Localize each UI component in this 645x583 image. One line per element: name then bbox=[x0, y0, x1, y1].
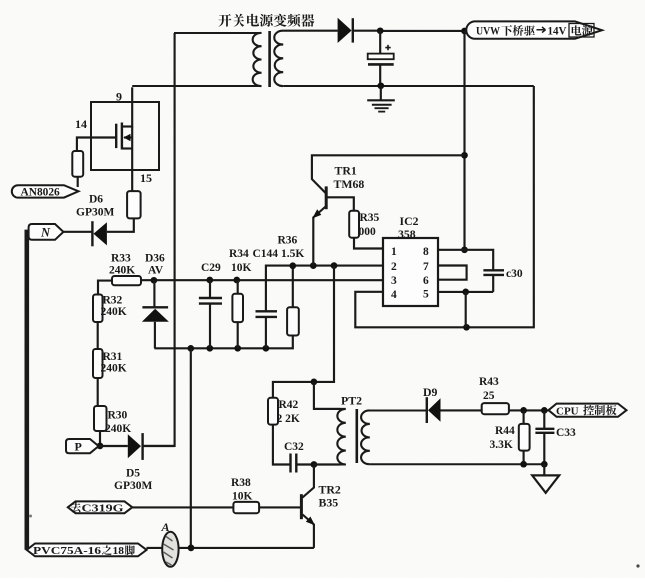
net flag P bbox=[66, 439, 99, 453]
resistor R43 bbox=[482, 403, 509, 414]
wire pin 15 (source) bbox=[131, 149, 133, 192]
wire R35 to IC2 pin 1 bbox=[354, 238, 383, 249]
junction dot R34 top bbox=[233, 277, 240, 284]
wire R33 left lead bbox=[98, 281, 112, 295]
label 开关电源变频器 (switching power transformer title) bbox=[218, 14, 314, 27]
capacitor C144 bbox=[266, 266, 383, 311]
gate series resistor (unlabeled) bbox=[72, 151, 83, 177]
wire P to D5 bbox=[99, 445, 128, 447]
wire pin5 to pin4 loop bbox=[465, 292, 467, 327]
net flag PVC75A-16之18脚 bbox=[27, 544, 147, 557]
wire 去C319G to R38 bbox=[132, 506, 233, 508]
transistor TR1 bbox=[312, 155, 465, 193]
ground symbol (top, after filter cap) bbox=[380, 86, 382, 100]
resistor R44 bbox=[523, 410, 525, 424]
junction dot 14V rail / IC supply bbox=[461, 28, 468, 35]
capacitor c30 bbox=[483, 269, 504, 271]
net flag CPU控制板 bbox=[549, 404, 627, 417]
junction dot rectifier output bbox=[377, 27, 384, 34]
wire R43 to CPU flag bbox=[509, 409, 549, 411]
wire net mid bus y=348 (cap/resistor bottoms) bbox=[154, 336, 292, 349]
wire IC2 pin 8 to supply bbox=[438, 250, 493, 270]
resistor R42 bbox=[268, 398, 278, 425]
wire T1 secondary return (x=533.8 down, to IC2 pin4 loop) bbox=[355, 86, 534, 327]
resistor R33 bbox=[112, 276, 141, 285]
junction dot TR1 collector rail bbox=[461, 152, 468, 159]
ground symbol (bottom right) bbox=[543, 464, 545, 475]
resistor R32 bbox=[93, 295, 103, 323]
wire IC2 supply vertical x=464.5 bbox=[463, 31, 465, 250]
junction dot C33 bottom / ground bbox=[541, 461, 548, 468]
junction dot R44 bottom bbox=[520, 461, 527, 468]
junction dot bottom bus bbox=[188, 545, 195, 552]
junction dot R44 top bbox=[520, 407, 527, 414]
wire TR1 base to R35 bbox=[326, 197, 354, 210]
source resistor (unlabeled) bbox=[127, 191, 141, 218]
junction dot pin2 net to R42/PT2 branch bbox=[331, 262, 338, 269]
wire R31-R30 bbox=[97, 378, 99, 406]
diode D6 bbox=[91, 221, 93, 246]
transformer PT2 primary winding bbox=[314, 409, 346, 465]
junction dot pin4 loop bbox=[463, 324, 470, 331]
junction dot R34 bottom bbox=[234, 345, 241, 352]
MOSFET Q1 symbol bbox=[115, 124, 117, 148]
wire tap to PT2 primary top bbox=[314, 382, 340, 409]
junction dot TR1 emitter on pin2 net bbox=[310, 262, 317, 269]
wire pin 9 (drain) bbox=[131, 87, 133, 127]
wire resistor to D6 bbox=[107, 218, 134, 231]
wire net pin3 bus (R33/D36/C29/R34 to IC2 pin 3) bbox=[141, 279, 383, 281]
diode D5 bbox=[128, 434, 141, 458]
junction dot P node bbox=[97, 443, 104, 450]
wire R32-R31 bbox=[97, 322, 99, 349]
wire IC2 pins 7-6 loop bbox=[438, 266, 467, 280]
resistor R30 bbox=[94, 406, 107, 431]
capacitor C29 bbox=[209, 280, 211, 297]
junction dot PT2 primary top tap bbox=[311, 379, 318, 386]
junction dot D36 top bbox=[151, 277, 158, 284]
diode D9 bbox=[426, 397, 428, 423]
junction dot C29 bottom bbox=[206, 345, 213, 352]
junction dot C33 top bbox=[541, 407, 548, 414]
wire long vertical x=175 (T1 primary top to D5 cathode) bbox=[144, 33, 175, 446]
switching MOSFET module box bbox=[91, 102, 159, 170]
wire R30 to P node bbox=[99, 431, 101, 446]
resistor R36 bbox=[292, 266, 294, 308]
electrolytic capacitor (filter, unlabeled) bbox=[379, 31, 381, 54]
wire pin 14 (gate) bbox=[77, 138, 116, 152]
rectifier diode (T1 secondary, unlabeled) bbox=[338, 18, 352, 43]
capacitor C32 bbox=[289, 454, 291, 473]
net flag 去C319G bbox=[68, 501, 133, 513]
junction dot PT2 primary bottom tap bbox=[311, 461, 318, 468]
junction dot C29 top bbox=[206, 277, 213, 284]
transformer T1 primary winding bbox=[174, 33, 262, 86]
junction dot R36 top bbox=[289, 262, 296, 269]
wire R38 to TR2 base bbox=[259, 506, 300, 508]
net flag UVW下桥驱→14V电源 bbox=[466, 21, 602, 38]
diode D36 (avalanche) bbox=[153, 280, 155, 307]
op-amp IC2 box bbox=[383, 238, 438, 306]
wire tap to PT2 primary bottom bbox=[314, 463, 340, 465]
transistor TR2 bbox=[300, 494, 303, 519]
thick bus wire N to PVC flag (left edge) bbox=[27, 232, 29, 550]
wire IC2 pin 5 bbox=[438, 291, 493, 293]
resistor R34 bbox=[237, 280, 239, 294]
junction dot pin5 bbox=[462, 289, 469, 296]
wire bottom bus bbox=[147, 547, 314, 549]
resistor R35 bbox=[349, 211, 359, 238]
resistor R38 bbox=[233, 502, 259, 513]
transformer T1 core bbox=[268, 31, 271, 87]
transformer PT2 secondary winding bbox=[361, 410, 427, 464]
junction dot C144 bottom bbox=[263, 345, 270, 352]
capacitor C33 bbox=[543, 410, 545, 428]
junction dot cap bottom bbox=[377, 82, 384, 89]
wire mid bus to bottom bus (x=190.6) bbox=[190, 348, 192, 548]
net flag AN8026 bbox=[12, 185, 79, 197]
wire pin2 net down to R42/PT2 primary bbox=[273, 266, 334, 398]
transformer PT2 core bbox=[355, 409, 358, 463]
junction dot IC2 pin8 supply bbox=[461, 246, 468, 253]
wire R42 to C32 bbox=[273, 425, 291, 465]
transformer T1 secondary winding bbox=[274, 31, 337, 86]
wire resistor to AN8026 flag bbox=[77, 177, 79, 187]
junction dot mid bus x=190.6 bbox=[187, 345, 194, 352]
net flag N bbox=[29, 224, 64, 240]
wire +14V rail bbox=[380, 30, 466, 32]
wire N flag to D6 bbox=[63, 231, 92, 233]
node A connector oval bbox=[162, 532, 178, 567]
resistor R31 bbox=[93, 349, 103, 378]
scan speck bbox=[636, 564, 639, 567]
